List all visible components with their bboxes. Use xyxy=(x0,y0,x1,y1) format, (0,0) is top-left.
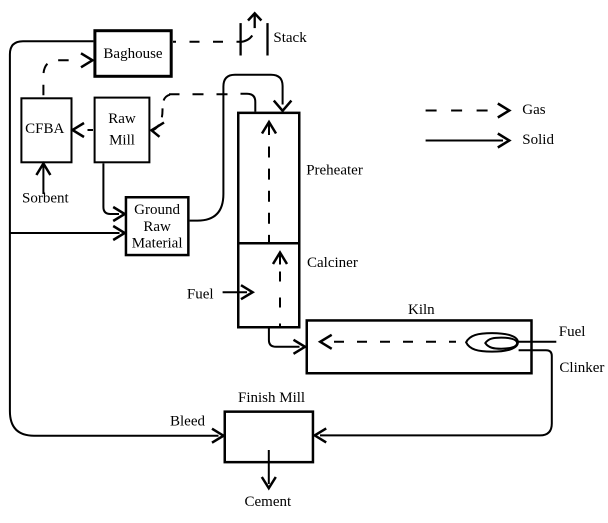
svg-text:Cement: Cement xyxy=(245,494,292,510)
svg-text:Kiln: Kiln xyxy=(408,302,435,318)
wire: cement out xyxy=(268,450,270,484)
arrowhead into Finish Mill (bleed) xyxy=(212,429,224,443)
svg-text:Raw: Raw xyxy=(143,219,171,235)
wire: raw mill gas to CFBA (dashed stub) xyxy=(88,129,94,131)
stack up arrow xyxy=(254,15,256,28)
arrowhead into GRM from raw mill xyxy=(113,207,125,221)
svg-text:Fuel: Fuel xyxy=(559,324,586,340)
legend solid arrow xyxy=(426,140,503,142)
svg-text:Fuel: Fuel xyxy=(187,287,214,303)
arrowhead into GRM (recycle) xyxy=(113,226,125,240)
box CFBA xyxy=(21,98,71,162)
wire: raw mill to ground raw material xyxy=(103,163,119,214)
wire: sorbent feed xyxy=(42,166,44,194)
arrowhead into CFBA xyxy=(73,123,85,137)
svg-text:Baghouse: Baghouse xyxy=(103,46,163,62)
arrowhead into Raw Mill right xyxy=(152,123,165,137)
svg-text:Bleed: Bleed xyxy=(170,414,205,430)
flame outer ellipse xyxy=(466,333,518,352)
svg-text:Solid: Solid xyxy=(522,132,554,148)
wire: calciner to kiln xyxy=(269,329,300,347)
svg-text:CFBA: CFBA xyxy=(25,121,64,137)
svg-text:Material: Material xyxy=(132,236,183,252)
svg-text:Preheater: Preheater xyxy=(306,163,363,179)
wire: hook into raw mill (dashed) xyxy=(153,95,170,131)
box Ground Raw Material xyxy=(126,197,188,255)
svg-text:Ground: Ground xyxy=(134,202,180,218)
wire: fuel to calciner xyxy=(223,291,247,293)
svg-text:Raw: Raw xyxy=(108,111,136,127)
svg-text:Finish Mill: Finish Mill xyxy=(238,390,305,406)
flame inner ellipse xyxy=(485,338,517,349)
svg-text:Clinker: Clinker xyxy=(559,360,604,376)
preheater internal gas arrow (dashed up) xyxy=(268,122,270,135)
kiln internal gas arrow (dashed left) xyxy=(334,341,456,343)
svg-text:Mill: Mill xyxy=(109,133,135,149)
wire: branch to ground raw material xyxy=(10,232,120,234)
calciner internal gas arrow (dashed up) xyxy=(279,253,281,265)
wire: CFBA gas to baghouse (dashed) xyxy=(43,60,74,97)
svg-text:Stack: Stack xyxy=(273,30,307,46)
box Finish Mill xyxy=(225,412,313,463)
box Raw Mill xyxy=(95,98,150,163)
arrowhead into preheater top xyxy=(274,101,292,111)
wire: clinker to finish mill xyxy=(320,350,552,435)
wire: baghouse gas to stack (dashed) xyxy=(173,41,240,43)
arrowhead into kiln xyxy=(294,340,306,354)
svg-text:Gas: Gas xyxy=(522,102,545,118)
wire: preheater gas to raw mill (dashed) xyxy=(169,93,241,95)
arrowhead into Baghouse xyxy=(81,53,93,67)
wire: preheater gas exit arc xyxy=(241,94,256,112)
wire: baghouse solids return (left long line to bleed) xyxy=(10,41,219,435)
box Kiln xyxy=(307,320,532,373)
wire: stack entry hook xyxy=(240,36,252,42)
wire: kiln fuel line xyxy=(518,341,556,343)
svg-text:Sorbent: Sorbent xyxy=(22,191,69,207)
box Baghouse xyxy=(95,31,171,77)
svg-text:Calciner: Calciner xyxy=(307,255,358,271)
legend gas (dashed arrow) xyxy=(426,110,492,112)
box preheater/calciner tower xyxy=(238,113,299,327)
wire: GRM to preheater top xyxy=(190,75,283,221)
stack left wall xyxy=(239,23,241,55)
arrowhead into finish mill right xyxy=(315,428,327,442)
arrowhead sorbent up xyxy=(36,164,50,176)
divider preheater/calciner xyxy=(237,242,301,245)
stack right wall xyxy=(266,23,268,55)
